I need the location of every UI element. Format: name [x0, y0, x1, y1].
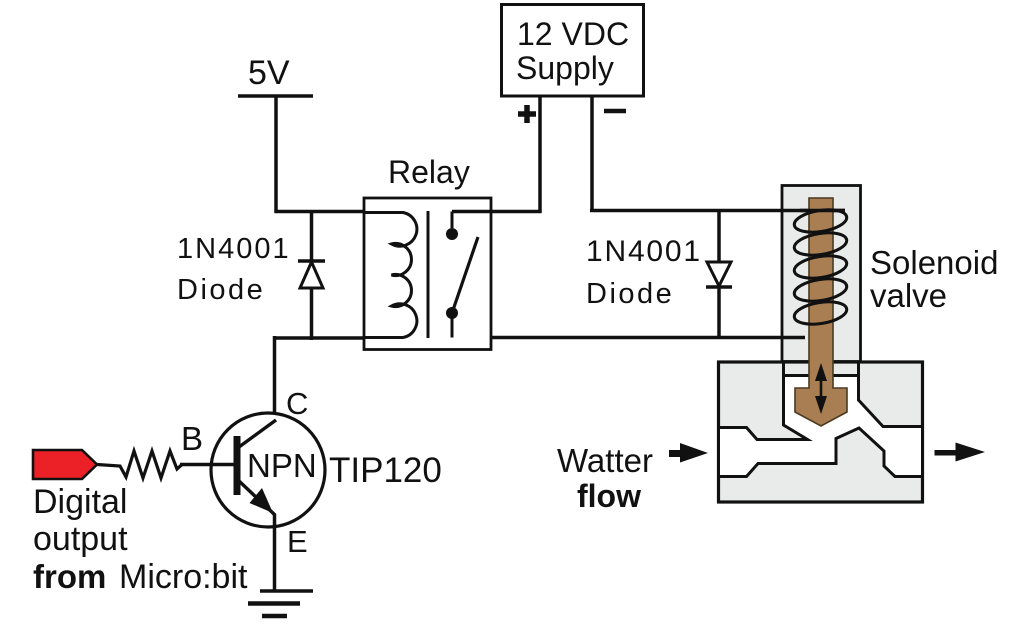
- transistor Q1 TIP120: [211, 413, 325, 527]
- svg-text:12 VDC: 12 VDC: [517, 16, 629, 52]
- wire 5V to relay (top left horizontal): [275, 210, 366, 214]
- svg-text:Diode: Diode: [177, 274, 265, 306]
- svg-text:Diode: Diode: [586, 278, 674, 310]
- relay switch bottom contact dot: [446, 307, 458, 319]
- diode D1 1N4001 (flyback, relay coil): [298, 261, 325, 288]
- wire collector vertical: [273, 336, 277, 414]
- wire upper right horizontal to solenoid: [590, 209, 845, 213]
- plus terminal label: [518, 105, 536, 123]
- wire emitter vertical: [273, 514, 277, 592]
- wire over plunger to coil top: [800, 209, 845, 213]
- relay armature divider: [427, 211, 430, 338]
- wire base lead: [180, 463, 236, 467]
- relay box: [364, 198, 491, 350]
- wire lower right horizontal relay to solenoid: [491, 336, 805, 340]
- water flow arrow right: [935, 443, 986, 462]
- svg-text:Solenoid: Solenoid: [870, 244, 998, 281]
- svg-text:output: output: [33, 520, 128, 558]
- solenoid plunger rod: [795, 198, 847, 426]
- svg-text:5V: 5V: [248, 54, 290, 92]
- wire bottom left horizontal (coil return to collector): [275, 336, 366, 340]
- svg-text:1N4001: 1N4001: [177, 233, 291, 265]
- minus terminal label: [604, 109, 626, 114]
- micro:bit digital output pin: [33, 450, 97, 479]
- wire diode D1 top lead: [310, 212, 314, 262]
- diode D2 1N4001 (flyback, solenoid): [706, 262, 732, 287]
- valve water channel: [719, 376, 923, 477]
- solenoid housing box: [782, 186, 861, 362]
- svg-text:Supply: Supply: [516, 50, 614, 86]
- valve collar walls: [782, 362, 785, 376]
- wire +12V vertical: [538, 96, 542, 213]
- svg-text:flow: flow: [577, 478, 641, 514]
- valve body: [719, 362, 923, 502]
- svg-text:TIP120: TIP120: [329, 451, 442, 490]
- wire diode D2 top lead: [717, 211, 721, 263]
- plunger motion arrow: [815, 363, 827, 414]
- svg-text:valve: valve: [870, 277, 947, 314]
- 12 VDC supply box: [502, 5, 644, 97]
- transistor body circle: [211, 413, 325, 527]
- svg-text:Micro:bit: Micro:bit: [119, 558, 248, 596]
- transistor base bar: [234, 436, 241, 495]
- relay switch top contact dot: [446, 228, 458, 240]
- svg-text:Digital: Digital: [33, 483, 127, 521]
- ground: [248, 591, 313, 616]
- resistor R1 (base resistor): [97, 451, 182, 478]
- svg-text:Relay: Relay: [388, 154, 470, 190]
- wire diode D1 bottom lead: [310, 288, 314, 340]
- svg-text:E: E: [287, 524, 308, 559]
- svg-text:1N4001: 1N4001: [586, 235, 702, 268]
- transistor collector stroke: [239, 420, 276, 447]
- relay coil: [364, 213, 417, 338]
- svg-text:from: from: [33, 558, 106, 595]
- 5V supply symbol: [238, 96, 313, 213]
- svg-text:B: B: [181, 420, 203, 457]
- relay switch arm: [452, 237, 478, 313]
- transistor emitter arrowhead: [250, 488, 274, 513]
- wire relay common to +12V: [452, 210, 542, 214]
- solenoid coil winding: [793, 206, 849, 327]
- transistor emitter stroke: [239, 481, 275, 515]
- relay switch bottom lead: [451, 313, 454, 338]
- wire diode D2 bottom lead: [717, 287, 721, 339]
- wire -12V vertical: [590, 96, 594, 212]
- relay switch top contact lead: [451, 212, 454, 229]
- svg-text:NPN: NPN: [247, 447, 317, 484]
- svg-text:Watter: Watter: [557, 442, 653, 479]
- water flow arrow left: [669, 443, 708, 463]
